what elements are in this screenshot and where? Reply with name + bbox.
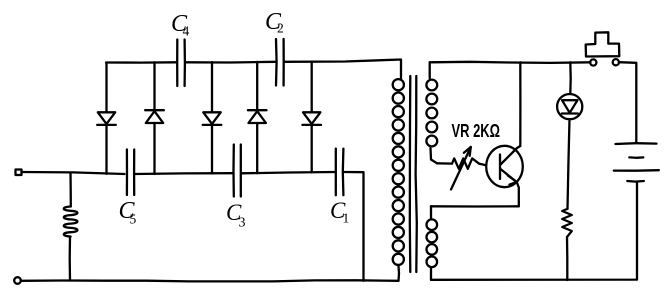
transformer T1 secondary bottom winding xyxy=(427,206,438,279)
wire bottom return primary side xyxy=(21,280,399,281)
resistor R2 LED series xyxy=(562,209,572,280)
diode D5 xyxy=(302,62,321,173)
LED indicator lamp xyxy=(557,62,582,209)
wire bottom rail B4 corner down to return xyxy=(344,172,363,281)
capacitor C5 xyxy=(127,150,134,196)
push button switch S1 xyxy=(586,32,620,65)
wire emitter to secondary bottom winding xyxy=(431,205,519,207)
terminal input top-left xyxy=(16,170,22,176)
label C4 xyxy=(171,11,190,39)
svg-text:5: 5 xyxy=(130,212,137,227)
label C3 xyxy=(226,200,246,231)
diode D1 xyxy=(97,63,116,174)
svg-text:VR 2KΩ: VR 2KΩ xyxy=(452,120,501,141)
svg-text:3: 3 xyxy=(239,216,246,231)
wire top rail segment T3 to transformer primary xyxy=(285,60,401,80)
svg-text:4: 4 xyxy=(183,24,190,39)
terminal input bottom-left xyxy=(14,277,21,284)
label C2 xyxy=(265,9,284,36)
wire top rail segment T1 xyxy=(106,61,176,64)
label VR 2K ohm xyxy=(452,120,501,141)
resistor R1 left shunt xyxy=(64,173,78,281)
diode D2 xyxy=(145,62,164,174)
wire battery negative to bottom return xyxy=(431,182,637,280)
label C5 xyxy=(119,198,137,227)
capacitor C2 xyxy=(276,39,284,86)
diode D4 xyxy=(248,62,267,173)
wire bottom rail segment B3 xyxy=(242,172,335,173)
svg-text:2: 2 xyxy=(277,21,284,36)
battery B1 xyxy=(614,143,659,181)
wire bottom rail segment B1 xyxy=(22,172,125,174)
label C1 xyxy=(330,198,349,226)
transformer T1 core xyxy=(410,76,417,272)
wire collector riser xyxy=(519,62,521,146)
wire bottom rail segment B2 xyxy=(135,172,233,175)
wire button to battery positive xyxy=(619,62,636,143)
capacitor C3 xyxy=(234,145,241,197)
variable resistor VR 2K ohm xyxy=(437,147,486,190)
transformer T1 primary winding xyxy=(393,79,404,281)
transformer T1 secondary top winding xyxy=(426,62,437,163)
svg-text:1: 1 xyxy=(343,211,350,226)
capacitor C4 xyxy=(177,40,185,87)
wire top rail segment T2 xyxy=(186,61,275,64)
diode D3 xyxy=(203,62,222,173)
wire secondary top rail xyxy=(430,62,591,63)
transistor Q1 xyxy=(486,146,523,207)
capacitor C1 xyxy=(336,149,344,196)
